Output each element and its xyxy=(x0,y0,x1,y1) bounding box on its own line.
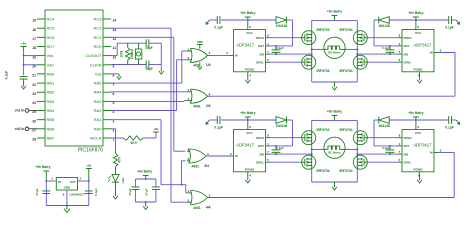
capacitor C2 15pF xyxy=(145,39,147,47)
svg-text:7: 7 xyxy=(267,50,269,54)
pin 17 RC6 (left) xyxy=(37,36,45,38)
svg-text:49.9: 49.9 xyxy=(130,141,136,145)
capacitor C10 0.1uF (U6 VCC) xyxy=(448,116,450,124)
svg-text:3: 3 xyxy=(63,192,65,196)
connector ch2 In xyxy=(25,127,29,131)
wire diode D4 to BST xyxy=(286,119,292,121)
power flag VDD (gate1) xyxy=(199,45,201,49)
pin 8 DRVH of U5 xyxy=(266,137,271,139)
capacitor C7 0.1uF (U4 bootstrap) xyxy=(389,46,391,50)
svg-text:ch2 In: ch2 In xyxy=(15,127,25,131)
svg-text:+6v Batry: +6v Batry xyxy=(408,111,423,115)
pin 26 RB5 (left) xyxy=(37,119,45,121)
svg-text:IRF3704: IRF3704 xyxy=(339,169,352,173)
svg-text:RB2: RB2 xyxy=(47,90,56,95)
wire U3 SW to bridge xyxy=(270,53,312,55)
pin 2 IN of U4 xyxy=(434,52,439,54)
svg-text:ADP3417: ADP3417 xyxy=(236,43,255,48)
wire U3 PGND stem xyxy=(247,72,249,77)
svg-text:4: 4 xyxy=(249,173,251,177)
pin 13 RC2 (right) xyxy=(103,27,111,29)
pin 25 RB4 (left) xyxy=(37,110,45,112)
svg-text:BST: BST xyxy=(404,144,410,148)
svg-text:RA4: RA4 xyxy=(94,90,103,95)
wire cap C3 to ground rail xyxy=(149,64,161,66)
svg-text:IRF3704: IRF3704 xyxy=(339,69,352,73)
wire bridge1 top rail xyxy=(312,19,358,21)
resistor R1 100k (crystal feedback) xyxy=(127,43,129,47)
svg-text:IRF3704: IRF3704 xyxy=(339,128,352,132)
svg-text:RC2: RC2 xyxy=(93,26,102,31)
wire U5 DRVL to Q6 gate xyxy=(270,161,302,163)
svg-text:2: 2 xyxy=(230,152,232,156)
resistor R2 470 xyxy=(113,153,117,167)
wire U3 DRVL to Q2 gate xyxy=(270,61,302,63)
svg-text:47µF: 47µF xyxy=(144,188,148,195)
wire bridge1 right mid rail xyxy=(345,48,358,50)
svg-text:1/4: 1/4 xyxy=(206,63,211,67)
svg-text:+6v Batry: +6v Batry xyxy=(137,170,152,174)
ground (Vss pin8) xyxy=(118,74,120,77)
ground (U4 PGND) xyxy=(419,77,421,80)
svg-text:9: 9 xyxy=(113,65,115,69)
pin 2 RA0 (right) xyxy=(103,128,111,130)
pin 2 IN of U3 xyxy=(229,54,234,56)
svg-text:3: 3 xyxy=(207,152,209,156)
wire gate1 out to driver U3 IN xyxy=(207,54,229,56)
svg-text:RC4: RC4 xyxy=(47,17,56,22)
svg-text:1: 1 xyxy=(51,177,53,181)
pin 8 DRVH of U6 xyxy=(398,137,403,139)
wire pullup to +5v xyxy=(144,137,156,139)
svg-text:26: 26 xyxy=(32,119,36,123)
transistor Q3 IRF3704 (top-right) xyxy=(353,31,367,45)
svg-text:1: 1 xyxy=(267,142,269,146)
svg-text:RC3: RC3 xyxy=(93,17,102,22)
pin 1 MCLR (right) xyxy=(103,137,111,139)
wire RA1 down to gate3 pin2 and gate4 pin1 xyxy=(111,119,161,121)
svg-text:5: 5 xyxy=(267,158,269,162)
svg-text:0.1µF: 0.1µF xyxy=(276,46,284,50)
wire MCLR to pullup resistor xyxy=(111,137,123,139)
ground (bulk caps) xyxy=(145,202,147,204)
wire regulator output vertical xyxy=(88,181,90,206)
wire regulator ground rail xyxy=(46,205,89,207)
svg-text:IRF3704: IRF3704 xyxy=(317,69,330,73)
svg-text:+6v Batry: +6v Batry xyxy=(36,165,51,169)
svg-text:MCLR: MCLR xyxy=(90,136,101,141)
wire RA0 to LED resistor xyxy=(111,128,116,130)
wire bridge2 right mid rail xyxy=(345,148,358,150)
svg-text:7: 7 xyxy=(399,150,401,154)
wire bulk caps top rail xyxy=(135,178,156,180)
regulator U7 LM2940CT body xyxy=(56,178,77,191)
ground (oscillator) xyxy=(160,68,162,71)
svg-text:RB3: RB3 xyxy=(47,99,56,104)
svg-text:6: 6 xyxy=(249,125,251,129)
svg-text:6: 6 xyxy=(418,25,420,29)
pin 10 CLKOUT (right) xyxy=(103,55,111,57)
svg-text:DRVL: DRVL xyxy=(256,160,264,164)
resistor R3 49.9 xyxy=(123,136,144,140)
svg-text:RB5: RB5 xyxy=(47,117,56,122)
wire U6 SW to bridge xyxy=(357,153,397,155)
svg-text:0.1µF: 0.1µF xyxy=(5,71,9,80)
svg-text:RB1: RB1 xyxy=(47,81,56,86)
svg-text:VCC: VCC xyxy=(415,131,422,135)
svg-text:PGND: PGND xyxy=(245,68,255,72)
svg-text:RC6: RC6 xyxy=(47,35,56,40)
wire diode D5 to BST xyxy=(374,119,379,121)
pin 5 DRVL of U3 xyxy=(266,61,271,63)
svg-text:47µF: 47µF xyxy=(35,188,39,195)
LED D1 xyxy=(112,174,119,181)
pin 2 IN of U6 xyxy=(434,152,439,154)
svg-text:2: 2 xyxy=(440,148,442,152)
transistor Q4 IRF3704 (bottom-right) xyxy=(353,55,367,69)
pin 8 DRVH of U3 xyxy=(266,37,271,39)
svg-text:+6v Batry: +6v Batry xyxy=(327,110,342,114)
svg-text:CLKIN: CLKIN xyxy=(90,62,102,67)
capacitor C3 15pF xyxy=(145,61,147,69)
svg-text:IN: IN xyxy=(235,54,238,58)
motor M1 DC Motor xyxy=(324,37,345,58)
capacitor C12 47uF (regulator input) xyxy=(42,190,50,192)
wire U5 SW to bridge xyxy=(270,153,312,155)
wire oscillator top rail xyxy=(117,42,146,44)
gate U2b 4081 2/4 xyxy=(190,89,207,103)
svg-text:RB7: RB7 xyxy=(47,136,56,141)
transistor Q6 IRF3704 (bottom-left) xyxy=(302,155,316,169)
svg-text:IN: IN xyxy=(430,151,433,155)
svg-text:1: 1 xyxy=(267,42,269,46)
svg-text:ADP3417: ADP3417 xyxy=(236,143,255,148)
pin 3 RA1 (right) xyxy=(103,119,111,121)
svg-text:16: 16 xyxy=(32,28,36,32)
wire CLKIN bottom rail xyxy=(111,64,146,66)
svg-text:18: 18 xyxy=(32,46,36,50)
wire RA3 to gate2 pin2 xyxy=(111,100,184,102)
wire U6 DRVH to Q7 gate xyxy=(367,137,397,139)
ground (below C1) xyxy=(23,83,25,86)
ground (gate1) xyxy=(199,62,201,64)
svg-text:5: 5 xyxy=(399,158,401,162)
svg-text:GND: GND xyxy=(64,186,70,190)
capacitor C15 47uF xyxy=(155,179,157,187)
svg-text:PGND: PGND xyxy=(414,68,424,72)
pin 27 RB6 (left) xyxy=(37,128,45,130)
capacitor C8 0.1uF (U5 VCC) xyxy=(216,116,218,124)
svg-text:RB0: RB0 xyxy=(47,71,56,76)
wire cap C2 to ground rail xyxy=(149,42,161,44)
pin 7 RA5 (right) xyxy=(103,82,111,84)
ground (C4) xyxy=(206,20,209,24)
svg-text:RB4: RB4 xyxy=(47,108,56,113)
svg-text:IN: IN xyxy=(58,180,61,184)
pin 28 RB7 (left) xyxy=(37,137,45,139)
transistor Q7 IRF3704 (top-right) xyxy=(353,131,367,145)
svg-text:PIC16F870: PIC16F870 xyxy=(78,148,104,154)
wire RA5 up to gate1 pin1 xyxy=(111,82,182,84)
svg-text:RC7: RC7 xyxy=(47,44,56,49)
pin 24 RB3 (left) xyxy=(37,100,45,102)
svg-text:+6v Batry: +6v Batry xyxy=(408,11,423,15)
svg-text:SW: SW xyxy=(404,52,409,56)
ground (U5 PGND) xyxy=(247,177,249,180)
transistor Q8 IRF3704 (bottom-right) xyxy=(353,155,367,169)
wire U5 DRVH to Q5 gate xyxy=(270,137,302,139)
svg-text:RA1: RA1 xyxy=(94,117,103,122)
wire GND pin3 stem xyxy=(66,190,68,206)
wire RC2 bus down to gate4 xyxy=(111,27,171,29)
wire Vdd pin20 to supply stem xyxy=(24,64,37,66)
svg-text:4: 4 xyxy=(249,73,251,77)
svg-text:3: 3 xyxy=(209,92,211,96)
pin 1 BST of U4 xyxy=(398,45,403,47)
ground (C10) xyxy=(456,120,459,124)
svg-text:+6v Batry: +6v Batry xyxy=(240,111,255,115)
svg-text:DRVH: DRVH xyxy=(256,36,264,40)
svg-text:RC5: RC5 xyxy=(47,26,56,31)
wire U3 DRVH to Q1 gate xyxy=(270,37,302,39)
ground (C6) xyxy=(456,20,459,24)
wire U4 SW to bridge xyxy=(357,53,397,55)
wire bridge1 left column xyxy=(311,20,313,82)
pin 5 DRVL of U6 xyxy=(398,161,403,163)
wire bridge2 left column xyxy=(311,120,313,182)
svg-text:5: 5 xyxy=(267,58,269,62)
svg-text:DRVL: DRVL xyxy=(404,160,412,164)
svg-text:6: 6 xyxy=(113,92,115,96)
svg-text:4/4: 4/4 xyxy=(206,205,211,209)
pin 7 SW of U6 xyxy=(398,153,403,155)
pin 23 RB2 (left) xyxy=(37,91,45,93)
wire VCC rail of U5 xyxy=(221,119,248,121)
svg-text:RA0: RA0 xyxy=(94,126,103,131)
pin 1 BST of U3 xyxy=(266,45,271,47)
svg-text:100k: 100k xyxy=(119,50,123,57)
wire bulk caps bottom rail xyxy=(135,201,156,203)
capacitor C5 0.1uF (U3 bootstrap) xyxy=(275,46,277,50)
pin 14 RC3 (right) xyxy=(103,18,111,20)
pin 9 CLKIN (right) xyxy=(103,64,111,66)
transistor Q2 IRF3704 (bottom-left) xyxy=(302,55,316,69)
svg-text:CLKOUT: CLKOUT xyxy=(85,53,102,58)
svg-text:0.1µF: 0.1µF xyxy=(382,46,390,50)
wire RA4 to gate2 pin1 xyxy=(111,91,187,93)
svg-text:4081: 4081 xyxy=(193,206,201,210)
diode D3 1N4148 xyxy=(389,19,416,21)
wire U4 DRVH to Q3 gate xyxy=(367,37,397,39)
pin 8 DRVH of U4 xyxy=(398,37,403,39)
wire RA2 up to gate1 pin2 xyxy=(111,110,177,112)
op-amp driver U4 ADP3417 body xyxy=(402,30,434,72)
svg-text:RB6: RB6 xyxy=(47,126,56,131)
op-amp driver U5 ADP3417 body xyxy=(234,130,266,172)
pin 16 RC5 (left) xyxy=(37,27,45,29)
svg-text:0.1µF: 0.1µF xyxy=(382,146,390,150)
wire ch2 In to RB6 xyxy=(29,128,37,130)
wire regulator to pin2 xyxy=(78,180,89,182)
svg-text:BST: BST xyxy=(404,44,410,48)
svg-text:2/4: 2/4 xyxy=(206,104,211,108)
svg-text:2: 2 xyxy=(440,48,442,52)
pin 7 SW of U5 xyxy=(266,153,271,155)
svg-text:5: 5 xyxy=(399,58,401,62)
wire RC1 bus down to gate3 xyxy=(111,36,174,38)
wire bridge2 left mid rail xyxy=(312,148,325,150)
IC U1 PIC16F870 body xyxy=(45,10,103,146)
pin 1 BST of U5 xyxy=(266,145,271,147)
svg-text:6: 6 xyxy=(418,125,420,129)
svg-text:VCC: VCC xyxy=(415,31,422,35)
wire VCC rail of U3 xyxy=(221,19,248,21)
svg-text:IN: IN xyxy=(430,51,433,55)
svg-text:RA2: RA2 xyxy=(94,108,103,113)
wire bridge1 bottom rail xyxy=(312,81,358,83)
svg-text:LM2940CT: LM2940CT xyxy=(70,192,86,196)
svg-text:PGND: PGND xyxy=(245,168,255,172)
crystal X1 20MHz xyxy=(138,43,140,49)
svg-text:3: 3 xyxy=(209,51,211,55)
op-amp driver U3 ADP3417 body xyxy=(234,30,266,72)
svg-text:24: 24 xyxy=(32,101,36,105)
pin 5 DRVL of U4 xyxy=(398,61,403,63)
pin 7 SW of U4 xyxy=(398,53,403,55)
svg-text:OUT: OUT xyxy=(70,180,76,184)
ground (LED) xyxy=(115,193,117,196)
svg-text:14: 14 xyxy=(113,19,117,23)
svg-text:DRVL: DRVL xyxy=(404,60,412,64)
pin 20 Vdd (left) xyxy=(37,64,45,66)
wire U4 DRVL to Q4 gate xyxy=(367,61,397,63)
svg-text:+6v Batry: +6v Batry xyxy=(240,11,255,15)
wire regulator input vertical xyxy=(45,181,47,206)
svg-text:11: 11 xyxy=(113,46,117,50)
svg-text:1: 1 xyxy=(399,142,401,146)
wire Vss pin8 to ground xyxy=(111,73,119,75)
wire U4 PGND stem xyxy=(419,72,421,77)
wire diode D2 to BST xyxy=(286,19,292,21)
pin 6 RA4 (right) xyxy=(103,91,111,93)
svg-text:6: 6 xyxy=(249,25,251,29)
svg-text:15pF: 15pF xyxy=(145,46,152,50)
svg-text:0.1µF: 0.1µF xyxy=(276,146,284,150)
svg-text:3: 3 xyxy=(209,193,211,197)
svg-text:RA3: RA3 xyxy=(94,99,103,104)
svg-text:PGND: PGND xyxy=(414,168,424,172)
pin 5 DRVL of U5 xyxy=(266,161,271,163)
svg-text:15: 15 xyxy=(32,19,36,23)
svg-text:DRVH: DRVH xyxy=(256,136,264,140)
pin 18 RC7 (left) xyxy=(37,46,45,48)
ground (regulator) xyxy=(66,206,68,210)
capacitor C1 0.1uF (PIC decoupling) xyxy=(20,76,28,78)
svg-text:0.1µF: 0.1µF xyxy=(214,25,223,29)
svg-text:8: 8 xyxy=(399,134,401,138)
svg-text:SW: SW xyxy=(404,152,409,156)
gate U2c 4081 3/4 xyxy=(189,149,206,163)
svg-text:28: 28 xyxy=(32,138,36,142)
svg-text:SW: SW xyxy=(259,52,264,56)
svg-text:IRF3704: IRF3704 xyxy=(339,28,352,32)
svg-text:DRVH: DRVH xyxy=(404,136,412,140)
connector ch1 In xyxy=(25,109,29,113)
svg-text:15pF: 15pF xyxy=(145,67,152,71)
wire U6 PGND stem xyxy=(419,172,421,177)
pin 12 RC1 (right) xyxy=(103,36,111,38)
svg-text:+5v: +5v xyxy=(21,41,26,45)
svg-text:4081: 4081 xyxy=(192,164,200,168)
pin 15 RC4 (left) xyxy=(37,18,45,20)
svg-text:IN: IN xyxy=(235,154,238,158)
svg-text:RC0: RC0 xyxy=(93,44,102,49)
pin 2 IN of U5 xyxy=(229,155,234,157)
pin 11 RC0 (right) xyxy=(103,46,111,48)
pin 22 RB1 (left) xyxy=(37,82,45,84)
svg-text:RA5: RA5 xyxy=(94,81,103,86)
svg-text:IRF3704: IRF3704 xyxy=(317,128,330,132)
svg-text:ADP3417: ADP3417 xyxy=(413,43,432,48)
pin 8 Vss (right) xyxy=(103,73,111,75)
svg-text:23: 23 xyxy=(32,92,36,96)
pin 1 BST of U6 xyxy=(398,145,403,147)
svg-text:0.1µF: 0.1µF xyxy=(94,188,98,196)
svg-text:7: 7 xyxy=(399,50,401,54)
svg-text:BST: BST xyxy=(258,44,264,48)
svg-text:0.1µF: 0.1µF xyxy=(445,25,454,29)
transistor Q1 IRF3704 (top-left) xyxy=(302,31,316,45)
wire bridge2 right column xyxy=(356,120,358,182)
capacitor C13 0.1uF (regulator output) xyxy=(85,190,93,192)
svg-text:+5v: +5v xyxy=(86,164,91,168)
svg-text:7: 7 xyxy=(267,150,269,154)
wire gate4 out to driver U6 IN xyxy=(207,197,454,199)
svg-text:470: 470 xyxy=(118,157,122,163)
gate U2d 4081 4/4 xyxy=(190,191,207,205)
wire gate3 out to driver U5 IN xyxy=(206,155,229,157)
svg-text:8: 8 xyxy=(267,134,269,138)
svg-text:SW: SW xyxy=(259,152,264,156)
svg-text:DRVH: DRVH xyxy=(404,36,412,40)
diode D2 1N4148 xyxy=(248,19,276,21)
diode D5 1N4148 xyxy=(389,119,416,121)
svg-text:0.1µF: 0.1µF xyxy=(445,125,454,129)
capacitor C4 0.1uF (U3 VCC) xyxy=(216,16,218,24)
svg-text:IRF3704: IRF3704 xyxy=(317,28,330,32)
wire VCC rail of U4 xyxy=(416,19,449,21)
svg-text:ch1 In: ch1 In xyxy=(15,109,25,113)
svg-text:3/4: 3/4 xyxy=(204,164,209,168)
gate U2a 4081 1/4 xyxy=(190,48,207,62)
svg-text:BST: BST xyxy=(258,144,264,148)
wire CLKOUT to oscillator xyxy=(111,55,117,57)
diode D4 1N4148 xyxy=(248,119,276,121)
motor M2 DC Motor xyxy=(324,137,345,158)
ground (bridge 1) xyxy=(334,82,336,84)
svg-text:DRVL: DRVL xyxy=(256,60,264,64)
svg-text:0.1µF: 0.1µF xyxy=(214,125,223,129)
svg-text:ADP3417: ADP3417 xyxy=(413,143,432,148)
wire VCC rail of U6 xyxy=(416,119,449,121)
svg-text:1N4148: 1N4148 xyxy=(276,24,288,28)
wire U6 DRVL to Q8 gate xyxy=(367,161,397,163)
svg-text:VDD: VDD xyxy=(197,40,203,44)
ground (U6 PGND) xyxy=(419,177,421,180)
svg-text:1N4148: 1N4148 xyxy=(276,124,288,128)
pin 4 RA2 (right) xyxy=(103,110,111,112)
op-amp driver U6 ADP3417 body xyxy=(402,130,434,172)
